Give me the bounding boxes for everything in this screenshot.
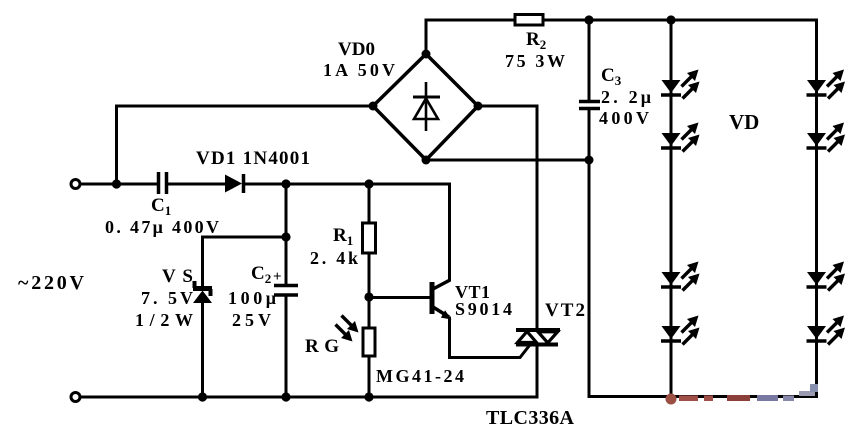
- LED VD string2 diode2: [807, 133, 827, 148]
- wire: left LED string: [670, 20, 673, 398]
- svg-text:VD0: VD0: [338, 39, 375, 60]
- node: bridge left vertex: [369, 102, 378, 111]
- svg-text:TLC336A: TLC336A: [486, 407, 575, 429]
- svg-text:25V: 25V: [232, 310, 271, 330]
- watermark dot on LED return rail: [666, 394, 677, 405]
- LED VD string2 diode3: [807, 272, 827, 287]
- node: base junction: [364, 292, 373, 301]
- svg-text:400V: 400V: [599, 108, 649, 128]
- wire: LED return rail: [589, 395, 817, 398]
- LED VD string1 diode2: [661, 133, 681, 148]
- svg-text:VD: VD: [729, 110, 759, 134]
- wire: VS branch horizontal: [203, 236, 287, 239]
- triac VT2: [516, 330, 560, 345]
- wire: bridge top stem: [425, 20, 428, 54]
- zener diode VS: [193, 281, 212, 303]
- wire: bridge bottom vertex to C3 column: [426, 159, 589, 162]
- diode VD1: [225, 174, 244, 193]
- light arrows of string2 diode1: [827, 70, 844, 87]
- bridge rectifier VD0 diamond: [373, 54, 478, 160]
- capacitor C3: [579, 102, 600, 109]
- terminal: AC input top: [71, 180, 80, 189]
- resistor R2: [515, 15, 543, 26]
- terminal: AC input bottom: [71, 393, 80, 402]
- light arrows of string2 diode4: [827, 316, 844, 333]
- svg-text:MG41-24: MG41-24: [376, 366, 464, 386]
- capacitor C2: [274, 286, 298, 296]
- LED VD string2 diode4: [807, 326, 827, 341]
- svg-text:1/2W: 1/2W: [135, 310, 193, 330]
- light arrow 1 into RG: [342, 316, 359, 333]
- node: bridge bottom vertex: [422, 156, 431, 165]
- node: left LED string top junction: [666, 15, 675, 24]
- svg-text:S9014: S9014: [455, 299, 512, 319]
- wire: VS column lower: [201, 303, 204, 397]
- transistor VT1: [432, 280, 452, 320]
- wire: C1 to VD1: [168, 183, 226, 186]
- svg-text:~220V: ~220V: [18, 272, 85, 294]
- wire: collector riser: [448, 184, 451, 280]
- node: RG bottom junction: [364, 392, 373, 401]
- wire: top rail left of R2: [426, 19, 515, 22]
- node: R1 top junction: [364, 179, 373, 188]
- node: C2 bottom junction: [281, 392, 290, 401]
- node: junction C3 bottom / bridge minus: [585, 156, 594, 165]
- svg-text:VD1 1N4001: VD1 1N4001: [196, 148, 310, 169]
- wire: RG bottom to rail: [368, 356, 371, 397]
- LED VD string2 diode1: [807, 80, 827, 95]
- wire: bridge right vertex to triac column: [478, 105, 537, 108]
- wire: top AC lead to C1: [81, 183, 158, 186]
- wire: VD1 to collector corner: [245, 183, 450, 186]
- wire: R1 column upper: [368, 184, 371, 223]
- node: bridge top vertex: [422, 50, 431, 59]
- wire: top rail right of R2: [543, 19, 817, 22]
- node: VS bottom junction: [198, 392, 207, 401]
- light arrows of string1 diode1: [682, 70, 699, 87]
- watermark dashes: [679, 384, 818, 401]
- capacitor C1: [159, 172, 167, 194]
- photoresistor RG: [363, 328, 375, 356]
- wire: base wire to VT1: [369, 296, 430, 299]
- LED VD string1 diode1: [661, 80, 681, 95]
- wire: emitter down and to triac gate: [450, 318, 530, 358]
- node: VD1 cathode junction: [281, 179, 290, 188]
- resistor R1: [363, 223, 376, 253]
- light arrows of string1 diode2: [682, 123, 699, 140]
- light arrows of string1 diode3: [682, 262, 699, 279]
- wire: C2 column upper: [285, 184, 288, 284]
- node: bridge right vertex: [474, 102, 483, 111]
- wire: C2 column lower: [285, 297, 288, 398]
- wire: bridge left vertex to AC input column: [117, 105, 374, 108]
- node: junction at AC/bridge branch: [112, 179, 121, 188]
- wire: C3 column upper: [588, 20, 591, 100]
- light arrow 2 into RG: [336, 325, 353, 342]
- LED VD string1 diode3: [661, 272, 681, 287]
- svg-text:VT2: VT2: [545, 300, 585, 321]
- wire: base node to RG: [368, 297, 371, 328]
- wire: triac column upper: [536, 106, 539, 328]
- wire: R1 bottom to base node: [368, 253, 371, 297]
- node: C3 top junction: [584, 15, 593, 24]
- light arrows of string2 diode2: [827, 123, 844, 140]
- bridge inner diode symbol: [413, 82, 440, 131]
- light arrows of string2 diode3: [827, 262, 844, 279]
- wire: right LED string: [815, 20, 818, 397]
- wire: C3 column lower to LED return rail: [588, 110, 591, 397]
- wire: VS column upper: [201, 237, 204, 286]
- node: VS branch junction: [281, 232, 290, 241]
- wire: triac column lower: [536, 347, 539, 398]
- light arrows of string1 diode4: [682, 316, 699, 333]
- LED VD string1 diode4: [661, 326, 681, 341]
- wire: AC input riser: [115, 106, 118, 184]
- svg-text:+: +: [273, 269, 282, 285]
- wire: bottom AC rail: [81, 396, 538, 399]
